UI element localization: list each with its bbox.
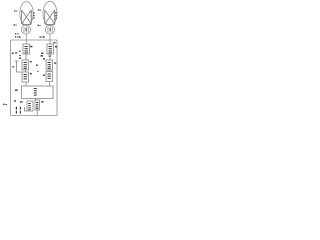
label on left rail [12,53,14,54]
text ticks in block 31 [28,103,31,104]
wire box21-box22 [49,54,51,60]
label 8 left of base B1 junction [14,24,15,25]
label 12 at bus left [15,36,16,37]
text ticks in block 23 [48,74,51,75]
block 21 (right col upper) [47,44,54,54]
tube V2 crossed electrodes [45,10,55,24]
block 22 (right col middle) [46,60,53,70]
base B1 center pin [26,28,27,31]
label ticks right of V1 electrode [33,13,34,14]
block 11 (left col upper) [23,44,30,54]
socket base B2 (right) [45,25,54,34]
wire: horizontal bus [11,39,58,41]
block 13 (left col lower) [22,72,29,82]
wire: right rail [56,40,58,116]
wire L into block 13 [15,61,22,72]
label 8 at bus mid-right [40,36,41,37]
wire main box to bottom block [35,99,37,102]
label 8 left of base B2 junction [38,25,39,26]
text ticks in main box [34,88,37,89]
label speck mid between columns [36,65,38,66]
text ticks in block 22 [48,62,51,63]
wire block32 to bottom rail [36,110,38,116]
text ticks in block 32 [36,102,38,103]
wire: right tube stem [49,34,51,44]
main block 30 (wide box) [22,86,54,99]
label speck above block 23 [37,71,39,72]
label left of block 12 [19,58,21,59]
tube V2 right electrode with ticks [54,10,56,24]
label 8 on left rail bottom [3,104,4,106]
label right of block 12 [30,61,32,62]
label left of main box [15,90,18,91]
label left of L-wire [12,66,14,67]
label ticks right of V2 electrode [55,13,56,14]
label right of block 11 [30,46,32,47]
label left of block 23 [43,75,45,76]
block 31 (bottom left small) [27,101,33,111]
tube V2 left electrode [44,11,46,25]
label right of block 13 [30,73,32,74]
tube V1 left electrode [20,11,22,25]
tube V2 bottom electrode [45,24,55,26]
label right rail upper [54,42,56,43]
tube V1 bottom electrode [22,24,31,26]
label right of block 22 [54,63,56,64]
junction tick on wire box21-box22 [48,55,51,58]
wire box13 to main box [25,82,27,86]
label right of bottom wire [41,101,43,102]
wire: left tube stem [25,34,27,44]
tube envelope V1 (left ellipse) [20,2,33,26]
label cluster left of block 21 [41,53,43,54]
wire box22-box23 [49,70,51,72]
block 32 (bottom mid small) [35,100,40,110]
wire corner into block31 [25,107,28,111]
wire: left rail [10,40,12,116]
text ticks in block 11 [25,46,28,47]
label left of block 22 [43,58,45,59]
text ticks in block 12 [24,62,27,63]
capacitor plates bottom left [16,107,17,110]
block 12 (left col middle) [22,60,29,70]
wire box11-box12 [25,54,27,60]
label 10 (left of base B1) [15,33,16,34]
wire: bottom rail [11,115,58,117]
label arrow between tubes [38,9,39,10]
label 8 (left of V1) [14,10,15,11]
wire box23 to main box [49,82,51,87]
wire box12-box13 [25,70,27,72]
text ticks in block 21 [49,46,52,47]
label right of block 21 [55,46,57,47]
socket base B1 (left) [21,25,30,34]
label near bottom left a [14,100,16,101]
label cluster left of block 11 [15,52,17,53]
block 23 (right col lower) [46,72,53,82]
tube envelope V2 (right ellipse) [43,1,57,25]
tube V1 right electrode with ticks [30,10,32,24]
base B2 center pin [50,28,51,31]
tube V1 crossed electrodes [22,10,32,24]
text ticks in block 13 [24,74,27,75]
